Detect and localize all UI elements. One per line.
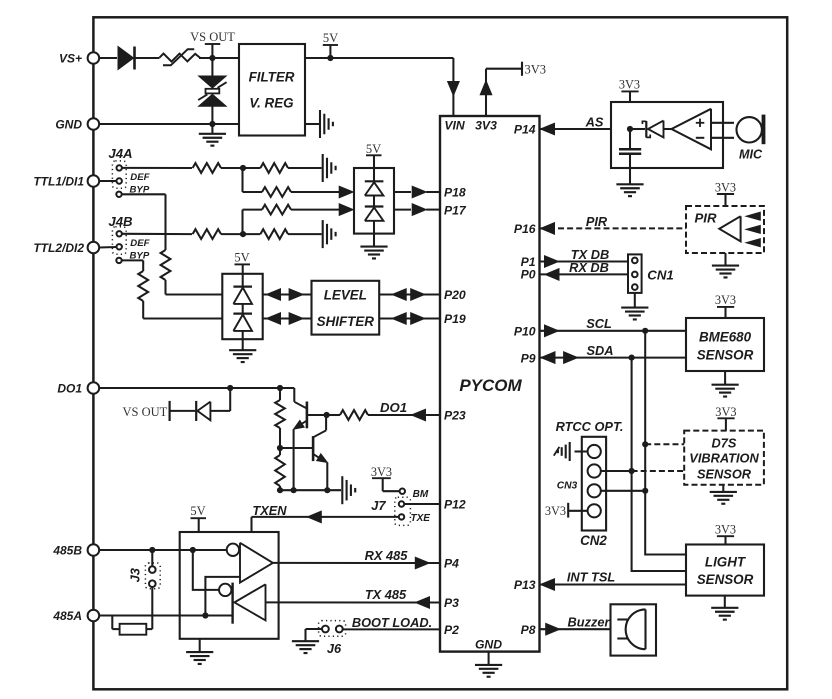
PIR beams xyxy=(746,212,760,247)
dashed wire to D7S sda xyxy=(632,470,685,472)
resistor R11 xyxy=(340,410,368,420)
svg-text:TXE: TXE xyxy=(411,513,431,524)
svg-text:5V: 5V xyxy=(323,31,338,45)
svg-text:P2: P2 xyxy=(444,623,459,637)
wire J4B DEF row xyxy=(122,233,192,235)
jumper J4A pins xyxy=(112,161,150,197)
svg-text:LEVEL: LEVEL xyxy=(324,287,367,302)
ground below PYCOM GND xyxy=(475,652,502,677)
label 5V clamp2 xyxy=(234,251,250,274)
svg-text:J7: J7 xyxy=(371,498,386,513)
wire J4A BYP xyxy=(122,194,166,250)
label 3V3 top xyxy=(522,62,546,77)
clamp diode Z4 xyxy=(233,304,252,339)
block RS485 transceiver xyxy=(180,532,279,639)
ground DO1 emitters xyxy=(342,476,355,504)
terminal 485B xyxy=(52,544,99,558)
clamp diode box TTL xyxy=(354,168,394,234)
wire INT TSL xyxy=(540,569,687,590)
svg-text:P20: P20 xyxy=(444,288,466,302)
svg-text:3V3: 3V3 xyxy=(525,62,547,76)
wire GND rail xyxy=(99,123,239,125)
svg-text:TXEN: TXEN xyxy=(252,503,287,518)
label 5V clamp1 xyxy=(366,142,382,168)
ground d7s xyxy=(710,485,737,504)
svg-text:CN2: CN2 xyxy=(580,533,607,548)
svg-text:3V3: 3V3 xyxy=(475,119,497,133)
jumper J4A label xyxy=(108,146,132,161)
svg-text:SENSOR: SENSOR xyxy=(697,467,752,482)
pin P8 label xyxy=(521,623,536,637)
pin P16 label xyxy=(514,222,536,236)
svg-text:SHIFTER: SHIFTER xyxy=(317,314,375,329)
wire amp to mic + xyxy=(711,122,734,124)
jumper J4B label xyxy=(108,214,133,229)
wire PIR to P16 xyxy=(541,214,687,234)
svg-text:DEF: DEF xyxy=(130,172,150,183)
wire SDA vertical xyxy=(632,358,686,571)
ground mic xyxy=(616,168,643,196)
svg-text:P16: P16 xyxy=(514,222,536,236)
svg-text:J4A: J4A xyxy=(108,146,132,161)
label 3V3 CN2 pin4 xyxy=(545,503,588,518)
wire clamp2 to shifter row1 xyxy=(263,289,312,301)
svg-text:RX 485: RX 485 xyxy=(365,548,409,563)
microphone MIC xyxy=(737,115,766,162)
svg-text:P0: P0 xyxy=(521,268,536,282)
terminal VS+ xyxy=(59,52,99,66)
wire DO1 to P23 xyxy=(327,414,340,416)
ground J6 xyxy=(292,641,319,653)
resistor R4 xyxy=(193,229,221,239)
ground rs485 xyxy=(186,639,213,664)
clamp diode Z1 xyxy=(365,168,384,196)
svg-text:5V: 5V xyxy=(234,251,249,265)
wire CN2 pin3 to SCL xyxy=(601,488,649,494)
label RTCC OPT xyxy=(556,419,624,434)
block PIR sensor xyxy=(686,206,764,253)
svg-text:SENSOR: SENSOR xyxy=(697,348,754,363)
svg-text:LIGHT: LIGHT xyxy=(705,554,747,569)
svg-text:P18: P18 xyxy=(444,186,466,200)
resistor R5 xyxy=(260,229,288,239)
pin VIN label xyxy=(444,119,466,133)
svg-text:AS: AS xyxy=(585,115,604,130)
wire TX DB xyxy=(540,247,629,267)
label VS OUT DO1 xyxy=(123,401,196,421)
node TVS to GND rail xyxy=(209,121,215,127)
wire D3 up to DO1 rail xyxy=(227,385,233,411)
label CN2 xyxy=(580,533,607,548)
pin P10 label xyxy=(514,325,536,339)
svg-text:DO1: DO1 xyxy=(57,382,82,396)
svg-text:BME680: BME680 xyxy=(699,330,752,345)
label 3V3 pir xyxy=(715,181,736,207)
wire SCL xyxy=(540,316,687,337)
svg-text:DO1: DO1 xyxy=(380,400,407,415)
resistor R1 xyxy=(193,163,221,173)
wire J7 to P12 xyxy=(404,503,440,505)
pin P14 label xyxy=(514,123,536,137)
label 3V3 mic xyxy=(619,78,640,102)
terminal 485A xyxy=(52,609,99,623)
svg-text:TX 485: TX 485 xyxy=(365,587,407,602)
terminal TTL1/DI1 xyxy=(33,175,99,189)
wire row1 branch down xyxy=(243,168,263,192)
op-amp U1 xyxy=(672,109,712,150)
wire row2 branch up xyxy=(243,210,263,235)
svg-text:SCL: SCL xyxy=(586,316,612,331)
node 5V xyxy=(323,31,338,61)
svg-text:P3: P3 xyxy=(444,596,459,610)
wire 3V3 pin up xyxy=(486,69,522,116)
svg-text:VIBRATION: VIBRATION xyxy=(689,451,759,466)
wire P8 to buzzer xyxy=(540,614,612,635)
svg-text:SDA: SDA xyxy=(586,343,613,358)
svg-text:BM: BM xyxy=(413,489,429,500)
block LEVEL SHIFTER xyxy=(312,281,380,335)
resistor R6 xyxy=(262,205,291,215)
svg-text:3V3: 3V3 xyxy=(715,523,736,537)
transistor Q2 xyxy=(313,415,329,490)
svg-text:J6: J6 xyxy=(327,641,342,656)
pin P23 label xyxy=(444,409,466,423)
wire to clamp P17 xyxy=(291,209,341,211)
svg-text:SENSOR: SENSOR xyxy=(697,572,754,587)
svg-text:P17: P17 xyxy=(444,203,467,217)
buzzer symbol xyxy=(611,604,657,655)
ground light xyxy=(711,596,738,620)
node Q1 base / Q2 collector xyxy=(324,412,330,418)
ground CN1 xyxy=(621,293,648,320)
resistor R9 xyxy=(275,388,285,448)
resistor R8 xyxy=(138,271,148,301)
svg-text:CN1: CN1 xyxy=(647,267,673,282)
ground bme xyxy=(712,371,739,397)
arrow into clamp row2 xyxy=(339,204,353,216)
block PYCOM module xyxy=(440,116,540,652)
svg-text:P19: P19 xyxy=(444,312,466,326)
wire R11 to P23 xyxy=(368,400,440,421)
pin P9 label xyxy=(521,351,536,365)
block FILTER V.REG xyxy=(239,44,305,136)
wire 485B to driver bubble xyxy=(193,550,219,590)
pin P19 label xyxy=(444,312,466,326)
svg-text:TTL1/DI1: TTL1/DI1 xyxy=(33,175,84,189)
svg-text:PIR: PIR xyxy=(586,214,608,229)
node row2 xyxy=(221,231,260,237)
wire J4B BYP xyxy=(122,260,144,271)
svg-text:INT TSL: INT TSL xyxy=(567,569,616,584)
connector CN1 xyxy=(628,254,674,293)
wire DO1 rail xyxy=(99,387,294,389)
pin P1 label xyxy=(521,255,536,269)
pin P12 label xyxy=(444,498,466,512)
svg-text:5V: 5V xyxy=(366,142,381,156)
fuse F1 fusible resistor xyxy=(160,49,200,65)
svg-text:3V3: 3V3 xyxy=(715,181,736,195)
node DO1 divider top xyxy=(277,385,283,391)
jumper J3 xyxy=(128,550,161,629)
wire CN2 pin2 to SDA xyxy=(601,468,635,474)
pin P13 label xyxy=(514,578,536,592)
clamp diode Z3 xyxy=(233,274,252,304)
wire clamp2 to shifter row2 xyxy=(263,313,312,325)
svg-text:V. REG: V. REG xyxy=(249,96,293,111)
svg-text:VIN: VIN xyxy=(444,119,466,133)
label 5V rs485 xyxy=(190,504,206,532)
label 3V3 bme xyxy=(715,293,736,318)
svg-text:5V: 5V xyxy=(190,504,205,518)
wire 485B xyxy=(99,547,227,553)
svg-text:GND: GND xyxy=(55,118,82,132)
arrow into clamp row1 xyxy=(339,186,353,198)
ground clamp2 xyxy=(229,339,256,362)
wire SDA xyxy=(540,343,687,364)
pin P17 label xyxy=(444,203,467,217)
clamp diode box level-shifter xyxy=(222,274,262,339)
terminal GND xyxy=(55,118,99,132)
wire 485A xyxy=(99,612,232,618)
label 3V3 d7s xyxy=(715,405,736,431)
transistor Q1 xyxy=(291,388,326,490)
ground CN2 pin1 xyxy=(554,442,588,461)
arrow out of 3V3 pin xyxy=(480,81,492,95)
ground clamp1 xyxy=(360,234,387,259)
wire R8 to shifter in2 xyxy=(143,301,222,319)
svg-text:3V3: 3V3 xyxy=(545,504,566,518)
wire 5V rail to PYCOM VIN xyxy=(305,58,453,116)
jumper J7 pins xyxy=(395,489,430,526)
svg-text:CN3: CN3 xyxy=(557,480,578,491)
svg-text:D7S: D7S xyxy=(712,435,737,450)
resistor R10 xyxy=(275,448,285,490)
block BME680 sensor xyxy=(686,318,764,371)
arrow into VIN xyxy=(448,82,460,96)
ground row2 xyxy=(288,220,336,248)
resistor R3 xyxy=(262,187,291,197)
svg-text:3V3: 3V3 xyxy=(371,465,392,479)
wire Q2 base xyxy=(280,447,312,449)
pin P3 label xyxy=(444,596,459,610)
block LIGHT sensor xyxy=(686,545,764,596)
wire RX485 out xyxy=(273,548,440,569)
wire shifter to P19 xyxy=(379,313,440,325)
buffer U2A receiver xyxy=(227,543,273,583)
svg-text:P12: P12 xyxy=(444,498,466,512)
svg-text:P14: P14 xyxy=(514,123,536,137)
ground row1 xyxy=(288,154,336,182)
svg-text:P10: P10 xyxy=(514,325,536,339)
resistor R7 xyxy=(161,250,171,280)
pin P20 label xyxy=(444,288,466,302)
wire TTL2 to J4B xyxy=(99,246,116,249)
wire emitter rail xyxy=(277,487,341,493)
node VS OUT xyxy=(190,30,235,61)
node Q2 base xyxy=(277,445,283,451)
wire clamp1 to P17 xyxy=(394,204,440,216)
block D7S vibration sensor xyxy=(684,431,764,485)
svg-text:PIR: PIR xyxy=(695,210,717,225)
label TXEN xyxy=(252,503,287,518)
wire J4A DEF row xyxy=(122,167,192,169)
wire TX485 in xyxy=(266,587,441,608)
pin P2 label xyxy=(444,623,459,637)
block microphone amp xyxy=(611,102,723,168)
terminal DO1 xyxy=(57,382,99,396)
wire to clamp P18 xyxy=(291,191,341,193)
wire 485A to receiver xyxy=(205,577,240,616)
svg-text:PYCOM: PYCOM xyxy=(459,376,522,395)
clamp diode Z2 xyxy=(365,196,384,234)
pin P0 label xyxy=(521,268,536,282)
svg-text:P13: P13 xyxy=(514,578,536,592)
diode D1 series input xyxy=(118,47,160,70)
svg-text:FILTER: FILTER xyxy=(249,70,295,85)
TVS D2 bidirectional suppressor xyxy=(198,58,226,124)
pin 3V3 label xyxy=(475,119,497,133)
svg-text:VS+: VS+ xyxy=(59,52,82,66)
wire AS to P14 xyxy=(540,115,612,135)
PIR detector triangle xyxy=(719,216,740,241)
svg-text:485B: 485B xyxy=(52,544,82,558)
label CN3 xyxy=(557,480,578,491)
label 3V3 J7 xyxy=(371,465,400,491)
svg-text:P23: P23 xyxy=(444,409,466,423)
ground pir xyxy=(712,253,739,277)
svg-text:J3: J3 xyxy=(128,568,143,582)
dashed wire to D7S scl xyxy=(642,441,684,447)
svg-text:DEF: DEF xyxy=(130,238,150,249)
diode D4 schottky xyxy=(630,121,672,138)
wire SCL vertical xyxy=(645,331,686,555)
svg-text:3V3: 3V3 xyxy=(619,78,640,92)
label J6 xyxy=(327,641,342,656)
node row1 xyxy=(221,165,260,171)
svg-text:3V3: 3V3 xyxy=(715,405,736,419)
label J7 xyxy=(371,498,386,513)
node AS xyxy=(627,126,633,132)
svg-text:RTCC OPT.: RTCC OPT. xyxy=(556,419,624,434)
wire R7 to shifter in1 xyxy=(166,280,223,295)
wire BOOT LOAD to P2 xyxy=(343,615,440,630)
pin P4 label xyxy=(444,557,459,571)
pin GND label xyxy=(475,637,502,651)
svg-text:TTL2/DI2: TTL2/DI2 xyxy=(33,241,84,255)
svg-text:P9: P9 xyxy=(521,351,536,365)
connector CN2 xyxy=(582,437,606,531)
wire VS+ to diode xyxy=(99,57,117,59)
svg-text:P4: P4 xyxy=(444,557,459,571)
resistor R12 termination xyxy=(112,616,152,635)
wire clamp1 to P18 xyxy=(394,186,440,198)
svg-text:P8: P8 xyxy=(521,623,536,637)
svg-text:RX DB: RX DB xyxy=(569,260,609,275)
svg-text:3V3: 3V3 xyxy=(715,293,736,307)
wire fuse to regulator xyxy=(199,57,239,59)
buffer U2B driver xyxy=(219,583,266,624)
wire TTL1 to J4A xyxy=(99,180,116,182)
svg-text:Buzzer: Buzzer xyxy=(568,614,611,629)
ground right of regulator xyxy=(305,110,333,138)
jumper J6 xyxy=(306,621,346,642)
ground below TVS xyxy=(199,124,226,146)
svg-text:MIC: MIC xyxy=(739,148,763,162)
terminal TTL2/DI2 xyxy=(33,241,99,255)
svg-text:VS OUT: VS OUT xyxy=(190,30,235,44)
capacitor C1 xyxy=(619,129,641,168)
diode D3 VS OUT xyxy=(196,401,230,421)
wire amp to mic - xyxy=(711,137,734,139)
wire RX DB xyxy=(540,260,629,280)
resistor R2 xyxy=(260,163,288,173)
svg-text:485A: 485A xyxy=(52,609,82,623)
svg-text:BOOT LOAD.: BOOT LOAD. xyxy=(352,615,432,630)
label 3V3 light xyxy=(715,523,736,545)
svg-text:GND: GND xyxy=(475,637,502,651)
wire shifter to P20 xyxy=(379,289,440,301)
wire TXEN xyxy=(252,511,399,532)
jumper J4B pins xyxy=(112,227,150,263)
pin P18 label xyxy=(444,186,466,200)
svg-text:VS OUT: VS OUT xyxy=(123,405,168,419)
